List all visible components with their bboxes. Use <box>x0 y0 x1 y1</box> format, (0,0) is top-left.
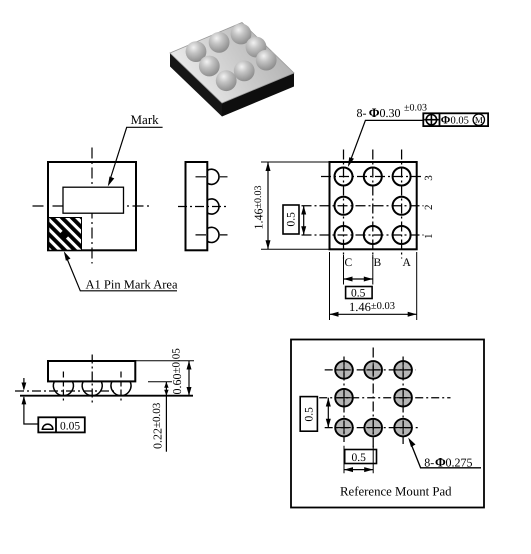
ball height arrows 0.22 <box>165 382 167 396</box>
svg-text:Mark: Mark <box>131 112 160 127</box>
bottom 1.46 dimension line <box>330 313 417 315</box>
pad C3 <box>335 361 353 379</box>
3D package left side face <box>170 53 222 117</box>
row centerline 3 <box>321 176 424 178</box>
svg-text:C: C <box>345 257 353 269</box>
row centerline 1 <box>302 234 424 236</box>
svg-text:0.60±0.05: 0.60±0.05 <box>170 348 184 395</box>
height dim extension line <box>135 360 194 362</box>
side ball left <box>53 382 73 396</box>
column centerline B <box>372 150 374 259</box>
pad callout arrowhead <box>408 438 415 447</box>
left dim arrow top <box>266 162 271 171</box>
pad B3 <box>364 361 382 379</box>
inner 0.5 dimension line <box>303 206 305 235</box>
A1 pin mark hatched area <box>49 218 82 251</box>
M modifier circle <box>473 114 484 125</box>
bottom 1.46 extension lines <box>330 252 417 320</box>
seating plane line <box>20 395 193 397</box>
pad crosshair overlays <box>337 363 351 377</box>
svg-text:Reference Mount Pad: Reference Mount Pad <box>340 485 452 499</box>
pad callout leader <box>410 440 482 468</box>
svg-text:1.46±0.03: 1.46±0.03 <box>349 300 395 314</box>
top view vertical centerline <box>91 148 93 264</box>
mount pad 0.5 left dimension line <box>327 398 329 428</box>
ball C2 <box>335 197 353 215</box>
svg-text:8-Φ0.30: 8-Φ0.30 <box>357 105 401 120</box>
A1 leader line with underline <box>66 255 178 291</box>
bottom 1.46 arrow left <box>330 312 339 317</box>
svg-text:A: A <box>403 257 412 269</box>
svg-text:3: 3 <box>423 175 435 181</box>
svg-text:0.5: 0.5 <box>304 407 316 422</box>
coplanarity down arrow <box>23 378 25 389</box>
svg-text:2: 2 <box>423 205 435 211</box>
bottom 1.46 arrow right <box>408 312 417 317</box>
row centerline 2 <box>302 205 424 207</box>
height dimension line 0.60 <box>188 361 190 396</box>
mount pad 0.5 left box <box>300 397 317 432</box>
seating plane datum dash-dot line <box>15 390 117 392</box>
left dim arrow bottom <box>266 240 271 249</box>
position symbol <box>424 113 438 126</box>
svg-text:1: 1 <box>423 234 435 240</box>
pad A2 <box>394 389 412 407</box>
bottom 0.5 extension lines <box>344 255 373 285</box>
right ball dashed centerline <box>120 372 122 401</box>
column centerline A <box>401 150 403 259</box>
bottom 0.5 box <box>346 287 373 299</box>
svg-text:Φ0.05: Φ0.05 <box>441 115 469 127</box>
ball callout arrowhead <box>348 157 354 167</box>
ball C3 <box>335 168 353 186</box>
pad C1 <box>335 419 353 437</box>
top view horizontal centerline <box>33 205 151 207</box>
ball height leader line down <box>165 396 167 452</box>
left dimension extension lines <box>261 162 330 249</box>
top view package outline <box>48 162 136 250</box>
side view bump 2 <box>207 199 219 214</box>
pad row centerline 2 <box>319 397 450 399</box>
svg-text:0.5: 0.5 <box>351 288 366 300</box>
3D ball A1 <box>256 50 277 71</box>
pad A1 <box>394 419 412 437</box>
pad column centerline 2 <box>372 348 374 450</box>
ball A3 <box>393 168 411 186</box>
svg-text:0.22±0.03: 0.22±0.03 <box>151 402 165 449</box>
pad row centerline 3 <box>325 427 418 429</box>
A1 leader arrowhead <box>64 251 71 261</box>
mount pad bottom 0.5 extension lines <box>344 446 373 473</box>
svg-text:M: M <box>475 115 483 125</box>
pad row centerline 1 <box>325 369 416 371</box>
pad C2 <box>335 389 353 407</box>
bottom view package outline <box>330 162 417 249</box>
Mark leader arrowhead <box>108 177 115 187</box>
feature control frame box <box>423 113 488 126</box>
3D ball C1 <box>216 70 237 91</box>
side view centerline through bump 2 <box>178 206 228 208</box>
side view bump 1 <box>207 227 219 242</box>
3D ball C3 <box>186 41 207 62</box>
svg-text:1.46±0.03: 1.46±0.03 <box>252 186 266 230</box>
mount pad border box <box>291 340 484 508</box>
hatch center diamond <box>60 229 71 240</box>
ball callout leader <box>350 120 424 162</box>
3D package right side face <box>222 73 294 117</box>
mount pad bottom 0.5 dimension line <box>344 469 373 471</box>
inner 0.5 arrow top <box>301 206 306 215</box>
side ball middle <box>82 382 102 396</box>
coplanarity frame divider <box>55 417 57 432</box>
coplanarity feature frame box <box>38 417 85 432</box>
3D ball C2 <box>199 56 220 77</box>
bottom 0.5 arrow right <box>364 277 373 282</box>
mark rectangle <box>63 187 124 213</box>
side view body <box>48 361 135 381</box>
side view bump 1 dash line <box>196 234 228 236</box>
seating plane symbol <box>42 424 54 429</box>
inner 0.5 arrow bottom <box>301 226 306 235</box>
inner 0.5 box <box>283 205 299 234</box>
Mark leader line <box>109 127 162 182</box>
svg-text:A1 Pin Mark Area: A1 Pin Mark Area <box>86 278 178 292</box>
3D ball A2 <box>246 37 267 58</box>
coplanarity up arrow and leader <box>24 397 38 424</box>
svg-text:0.05: 0.05 <box>60 421 80 433</box>
column centerline C <box>343 150 345 259</box>
pad column centerline 1 <box>343 357 345 443</box>
ball C1 <box>335 226 353 244</box>
ball A1 <box>393 226 411 244</box>
side view body outline <box>186 162 208 250</box>
side ball right <box>111 382 131 396</box>
3D ball B1 <box>234 61 255 82</box>
mount pad bottom 0.5 box <box>345 450 377 464</box>
pad column centerline 3 <box>402 357 404 445</box>
svg-text:0.5: 0.5 <box>286 212 298 227</box>
pad A3 <box>394 361 412 379</box>
height dim arrow top <box>187 361 192 370</box>
ball height extension line <box>148 381 172 383</box>
3D ball A3 <box>231 24 252 45</box>
pad B1 <box>364 419 382 437</box>
ball B1 <box>364 226 382 244</box>
3D package top face <box>170 23 294 104</box>
height dim arrow bottom <box>187 387 192 396</box>
svg-text:±0.03: ±0.03 <box>404 103 427 114</box>
ball B3 <box>364 168 382 186</box>
bottom 0.5 dimension line <box>344 278 373 280</box>
svg-text:0.5: 0.5 <box>352 452 367 464</box>
side view bump 3 <box>207 169 219 184</box>
left dimension line 1.46 <box>267 162 269 249</box>
left ball dashed centerline <box>62 372 64 401</box>
ball A2 <box>393 197 411 215</box>
feature control frame divider <box>439 113 441 126</box>
bottom 0.5 arrow left <box>344 277 353 282</box>
side view center dash-dot line <box>91 355 93 404</box>
svg-text:B: B <box>374 257 382 269</box>
side view bump 3 dash line <box>196 176 228 178</box>
3D ball B3 <box>209 32 230 53</box>
